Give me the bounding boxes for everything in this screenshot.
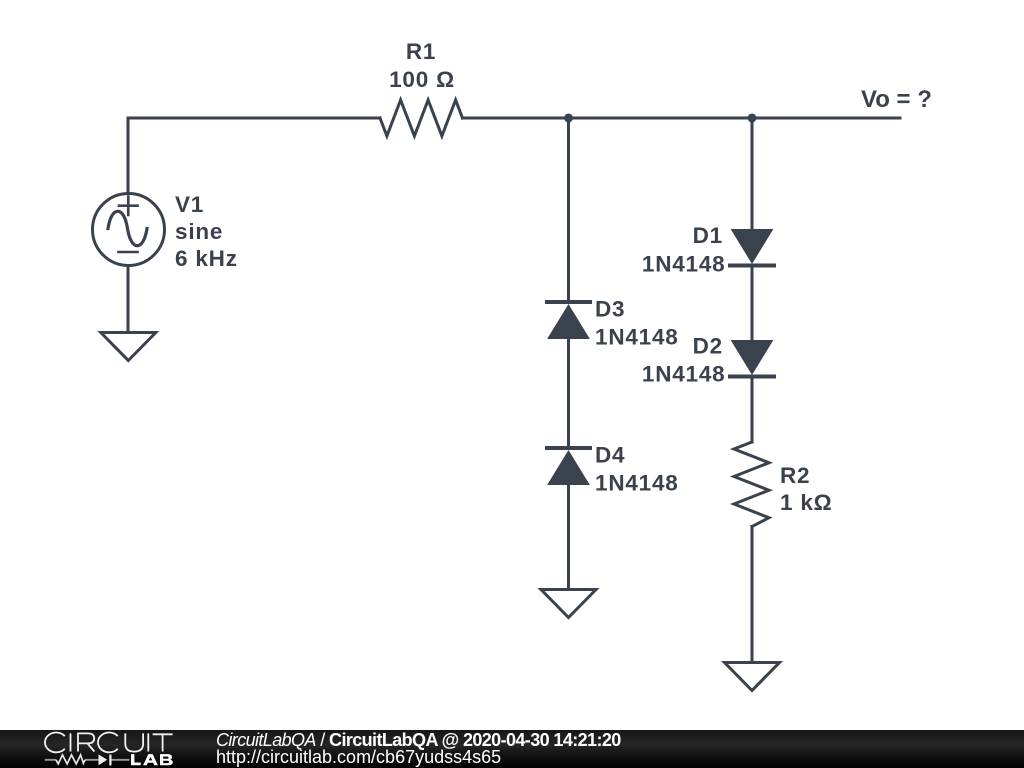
svg-text:1 kΩ: 1 kΩ [780,490,833,515]
node A junction dot [564,114,573,123]
label V1 type sine [175,219,223,244]
diode D1 [730,230,774,266]
wire top horizontal left (V1 to R1) [128,117,380,120]
svg-text:1N4148: 1N4148 [595,325,679,350]
voltage source V1 [93,194,165,266]
wire D4 to ground [567,485,570,589]
label D2 name [693,334,723,359]
wire node B down to D1 [751,118,754,229]
svg-text:6 kHz: 6 kHz [175,246,238,271]
logo LAB letters [131,754,173,765]
label D2 value [642,362,726,387]
ground (V1) [101,333,156,361]
label V1 name [175,192,204,217]
wire V1 bottom lead [127,266,130,331]
label output node Vo [861,86,932,113]
label R1 value 100 ohm [389,67,455,92]
wire V1 top lead [127,118,130,193]
wire D2 to R2 [751,376,754,442]
ground (right branch) [725,663,780,691]
svg-text:100 Ω: 100 Ω [389,67,455,92]
svg-text:D1: D1 [693,223,723,248]
resistor R1 [380,100,463,136]
label D3 value [595,325,679,350]
svg-text:V1: V1 [175,192,204,217]
wire D3 to D4 [567,338,570,448]
label D1 name [693,223,723,248]
svg-text:D3: D3 [595,297,625,322]
diode D3 [547,302,590,339]
svg-text:D4: D4 [595,443,625,468]
svg-text:1N4148: 1N4148 [642,362,726,387]
svg-text:R1: R1 [406,39,436,64]
resistor R2 [734,442,769,527]
footer bar [0,730,1024,768]
svg-text:D2: D2 [693,334,723,359]
node B junction dot [748,114,757,123]
label D4 value [595,471,679,496]
label D1 value [642,252,726,277]
label V1 frequency [175,246,238,271]
diode D4 [547,448,590,485]
diode D2 [730,341,774,377]
logo CIRCUIT wordmark [45,733,173,753]
label R2 value 1 kohm [780,490,833,515]
wire R2 to ground [751,527,754,662]
wire D1 to D2 [751,265,754,340]
wire top horizontal right (R1 to Vo) [463,117,901,120]
label D3 name [595,297,625,322]
svg-text:sine: sine [175,219,223,244]
footer attribution line [216,730,621,751]
wire node A down to D3 [567,118,570,302]
ground (left branch) [541,590,596,618]
svg-text:Vo = ?: Vo = ? [861,86,932,113]
label R2 name [780,463,810,488]
svg-text:1N4148: 1N4148 [642,252,726,277]
svg-text:R2: R2 [780,463,810,488]
label D4 name [595,443,625,468]
label R1 name [406,39,436,64]
svg-text:1N4148: 1N4148 [595,471,679,496]
footer url line [216,747,501,768]
logo resistor-diode symbol [45,754,130,765]
